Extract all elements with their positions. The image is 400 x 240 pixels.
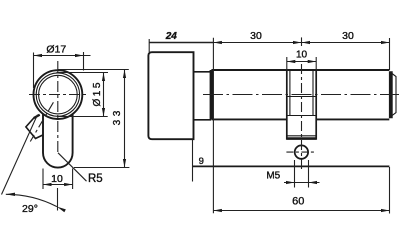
- svg-text:29°: 29°: [22, 203, 38, 215]
- svg-text:Ø15: Ø15: [92, 80, 103, 106]
- svg-text:R5: R5: [88, 173, 103, 185]
- svg-text:Ø17: Ø17: [46, 44, 66, 56]
- svg-text:10: 10: [51, 173, 63, 185]
- svg-text:24: 24: [165, 31, 178, 42]
- svg-text:60: 60: [292, 195, 304, 207]
- svg-text:33: 33: [112, 107, 123, 125]
- svg-text:30: 30: [250, 30, 262, 42]
- svg-text:30: 30: [342, 30, 354, 42]
- svg-text:10: 10: [296, 50, 308, 61]
- svg-text:M5: M5: [266, 171, 280, 182]
- svg-text:9: 9: [199, 156, 204, 167]
